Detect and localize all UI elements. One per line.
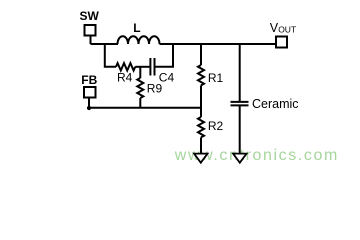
svg-text:L: L: [133, 21, 140, 35]
svg-text:OUT: OUT: [278, 24, 296, 34]
svg-text:R4: R4: [117, 71, 133, 85]
svg-text:R1: R1: [208, 71, 224, 85]
svg-text:R9: R9: [147, 81, 163, 95]
svg-text:SW: SW: [80, 9, 100, 23]
svg-text:R2: R2: [208, 119, 224, 133]
svg-text:FB: FB: [81, 73, 97, 87]
svg-text:Ceramic: Ceramic: [252, 97, 299, 111]
